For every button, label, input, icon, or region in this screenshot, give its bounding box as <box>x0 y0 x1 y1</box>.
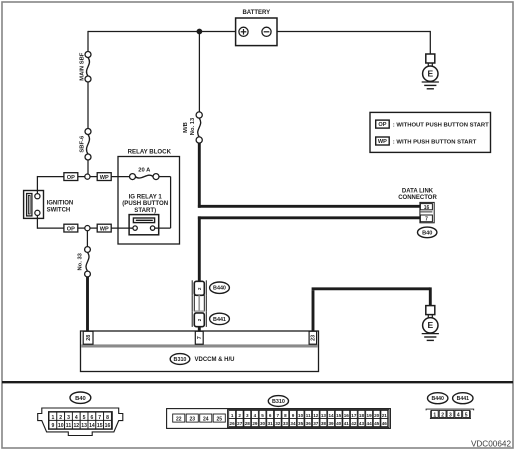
svg-text:16: 16 <box>105 423 111 429</box>
svg-text:36: 36 <box>306 421 312 426</box>
svg-text:17: 17 <box>351 413 357 418</box>
svg-text:OP: OP <box>378 122 386 128</box>
svg-text:9: 9 <box>292 413 295 418</box>
svg-text:26: 26 <box>230 421 236 426</box>
svg-text:B441: B441 <box>213 317 226 323</box>
svg-text:M/B: M/B <box>183 122 189 133</box>
fuse No. 33 <box>78 247 91 277</box>
svg-text:42: 42 <box>351 421 357 426</box>
wire M/B No.13 to data link connector pin 16 (thick) <box>198 143 421 208</box>
node battery junction <box>197 29 203 35</box>
svg-text:E: E <box>427 320 433 330</box>
svg-text:16: 16 <box>344 413 350 418</box>
svg-text:21: 21 <box>382 413 388 418</box>
svg-text:14: 14 <box>328 413 334 418</box>
svg-text:6: 6 <box>90 415 93 421</box>
wire junction down to M/B fuse <box>198 32 200 113</box>
svg-text:1: 1 <box>51 415 54 421</box>
connector B40 pinout <box>38 392 123 436</box>
svg-text:12: 12 <box>313 413 319 418</box>
svg-text:BATTERY: BATTERY <box>242 10 270 16</box>
svg-text:CONNECTOR: CONNECTOR <box>398 195 437 201</box>
svg-text:9: 9 <box>51 423 54 429</box>
svg-text:29: 29 <box>252 421 258 426</box>
svg-text:7: 7 <box>197 336 203 339</box>
wire SBF-6 to node B <box>87 160 89 177</box>
svg-text:B40: B40 <box>75 396 86 402</box>
svg-text:OP: OP <box>67 175 75 181</box>
node lower junction <box>85 226 90 231</box>
svg-text:35: 35 <box>298 421 304 426</box>
svg-text:10: 10 <box>298 413 304 418</box>
svg-text:11: 11 <box>306 413 311 418</box>
svg-text:10: 10 <box>58 423 64 429</box>
pin 7 <box>195 331 203 344</box>
svg-text:33: 33 <box>283 421 289 426</box>
svg-text:B440: B440 <box>213 286 226 292</box>
svg-text:39: 39 <box>328 421 334 426</box>
svg-text:45: 45 <box>374 421 380 426</box>
svg-text:4: 4 <box>254 413 257 418</box>
svg-text:: WITH PUSH BUTTON START: : WITH PUSH BUTTON START <box>393 139 477 145</box>
VDCCM & H/U unit B310 <box>81 331 319 372</box>
svg-text:5: 5 <box>261 413 264 418</box>
svg-text:2: 2 <box>238 413 241 418</box>
svg-text:SWITCH: SWITCH <box>47 207 71 213</box>
svg-text:43: 43 <box>359 421 365 426</box>
svg-text:4: 4 <box>457 412 460 418</box>
wire between MAIN SBF and SBF-6 <box>87 82 89 129</box>
wire B441 to VDCCM pin 7 (thick) <box>198 327 201 331</box>
svg-text:32: 32 <box>275 421 281 426</box>
svg-text:3: 3 <box>246 413 249 418</box>
svg-text:40: 40 <box>336 421 342 426</box>
svg-text:B441: B441 <box>457 396 470 402</box>
legend box <box>370 112 491 152</box>
svg-text:14: 14 <box>89 423 95 429</box>
svg-text:E: E <box>427 69 433 79</box>
ignition switch SW1 <box>24 191 74 219</box>
wire battery feed left <box>88 31 236 33</box>
svg-text:No. 13: No. 13 <box>190 117 196 135</box>
svg-text:B40: B40 <box>422 230 432 236</box>
svg-text:START): START) <box>134 207 156 214</box>
fuse 20A <box>130 168 160 180</box>
svg-text:VDCCM & H/U: VDCCM & H/U <box>195 357 235 363</box>
svg-text:5: 5 <box>465 412 468 418</box>
wire junction down to fuse No. 33 <box>86 231 88 247</box>
svg-text:19: 19 <box>367 413 373 418</box>
svg-text:2: 2 <box>441 412 444 418</box>
separator line <box>2 381 513 383</box>
connector B441 inline <box>192 311 206 327</box>
svg-text:3: 3 <box>449 412 452 418</box>
ground G2 bottom right <box>422 306 439 341</box>
connector label B310 oval <box>170 354 234 365</box>
wire No. 33 to VDCCM pin 28 (thick) <box>86 277 89 332</box>
svg-text:24: 24 <box>203 417 209 423</box>
svg-text:WP: WP <box>378 139 387 145</box>
svg-text:RELAY BLOCK: RELAY BLOCK <box>128 148 172 155</box>
connector tag OP lower <box>64 224 78 233</box>
wire OP to ignition switch top <box>36 176 38 194</box>
svg-text:DATA LINK: DATA LINK <box>402 189 434 195</box>
fuse MAIN SBF <box>80 52 92 83</box>
svg-text:22: 22 <box>176 417 182 423</box>
svg-text:1: 1 <box>231 413 234 418</box>
svg-text:WP: WP <box>100 227 109 233</box>
svg-text:B310: B310 <box>174 357 187 363</box>
svg-text:1: 1 <box>433 412 436 418</box>
svg-text:SBF-6: SBF-6 <box>80 135 86 153</box>
svg-text:28: 28 <box>86 335 92 341</box>
connector B440 inline <box>192 280 206 295</box>
svg-text:18: 18 <box>359 413 365 418</box>
svg-text:5: 5 <box>83 415 86 421</box>
svg-text:37: 37 <box>313 421 319 426</box>
svg-text:MAIN SBF: MAIN SBF <box>80 52 86 80</box>
svg-text:: WITHOUT PUSH BUTTON START: : WITHOUT PUSH BUTTON START <box>393 122 489 128</box>
connector tag OP upper <box>64 173 78 182</box>
relay block box <box>118 148 180 244</box>
data link connector <box>398 189 437 223</box>
wire between B440 and B441 <box>192 295 206 312</box>
pin 23 <box>309 331 317 344</box>
svg-text:27: 27 <box>237 421 243 426</box>
svg-text:3: 3 <box>67 415 70 421</box>
svg-text:41: 41 <box>344 421 350 426</box>
svg-text:20: 20 <box>374 413 380 418</box>
wire ignition switch bottom to OP <box>37 216 64 229</box>
connector B310 pinout <box>167 396 391 429</box>
svg-text:12: 12 <box>73 423 79 429</box>
svg-text:38: 38 <box>321 421 327 426</box>
wire battery to ground branch <box>277 31 430 33</box>
wire data link connector pin 7 to B440 (thick) <box>198 216 421 281</box>
svg-text:15: 15 <box>336 413 342 418</box>
svg-text:8: 8 <box>284 413 287 418</box>
wire left column top <box>87 31 89 52</box>
svg-text:44: 44 <box>367 421 373 426</box>
svg-text:25: 25 <box>216 417 222 423</box>
connector label B441 oval <box>210 313 230 324</box>
pin 28 <box>83 331 93 344</box>
connector label B40 oval <box>418 227 437 238</box>
svg-text:B440: B440 <box>431 396 444 402</box>
fuse M/B No. 13 <box>183 112 202 143</box>
svg-text:31: 31 <box>268 421 274 426</box>
svg-text:VDC00642: VDC00642 <box>471 439 512 448</box>
svg-text:2: 2 <box>59 415 62 421</box>
svg-text:WP: WP <box>100 175 109 181</box>
svg-text:16: 16 <box>424 205 430 211</box>
node upper junction <box>85 174 90 179</box>
svg-text:No. 33: No. 33 <box>78 252 84 270</box>
battery B1 <box>236 10 277 46</box>
svg-text:8: 8 <box>106 415 109 421</box>
wire 20A to relay contact <box>155 177 171 229</box>
svg-text:46: 46 <box>382 421 388 426</box>
svg-text:B310: B310 <box>272 399 285 405</box>
connector label B440 oval <box>210 282 230 293</box>
ground G1 top right <box>422 54 439 89</box>
svg-text:11: 11 <box>66 423 72 429</box>
wire VDCCM pin 23 to ground (thick) <box>312 287 431 331</box>
svg-text:20 A: 20 A <box>138 168 151 174</box>
svg-text:13: 13 <box>321 413 327 418</box>
svg-text:30: 30 <box>260 421 266 426</box>
svg-text:IGNITION: IGNITION <box>47 200 74 206</box>
connector tag WP upper <box>97 173 111 182</box>
svg-text:15: 15 <box>97 423 103 429</box>
wire row B segments <box>37 176 129 178</box>
connector B440/B441 pinout <box>426 393 474 419</box>
wire row C segments <box>78 227 132 229</box>
connector tag WP lower <box>97 224 111 233</box>
svg-text:28: 28 <box>245 421 251 426</box>
svg-text:7: 7 <box>98 415 101 421</box>
svg-text:23: 23 <box>189 417 195 423</box>
svg-text:23: 23 <box>311 335 317 341</box>
svg-text:7: 7 <box>276 413 279 418</box>
fuse SBF-6 <box>80 129 92 161</box>
svg-text:4: 4 <box>75 415 78 421</box>
svg-text:OP: OP <box>67 227 75 233</box>
relay IG RELAY 1 (PUSH BUTTON START) <box>122 193 168 235</box>
svg-text:6: 6 <box>269 413 272 418</box>
svg-text:34: 34 <box>290 421 296 426</box>
svg-text:7: 7 <box>425 216 428 222</box>
svg-text:13: 13 <box>81 423 87 429</box>
